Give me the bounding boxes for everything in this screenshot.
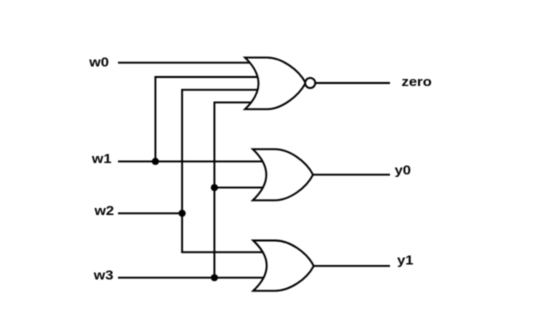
- wire y1 output: [314, 265, 390, 267]
- wire w3 branch to y0 gate: [214, 187, 267, 189]
- or-gate U3 (y1): [253, 241, 314, 291]
- nor-gate U1 bubble: [305, 78, 315, 88]
- node y0 branch junction: [211, 184, 218, 191]
- svg-text:w2: w2: [93, 203, 114, 218]
- svg-text:w1: w1: [91, 151, 112, 166]
- node w1 junction: [152, 158, 159, 165]
- node w2 junction: [179, 210, 186, 217]
- wire y0 output: [313, 174, 390, 176]
- wire w2 input: [118, 212, 182, 214]
- wire w2 branch to NOR and y1 gate: [182, 90, 268, 252]
- wire zero output: [316, 82, 390, 84]
- wire w1 input: [118, 160, 267, 162]
- wire w1 branch to NOR: [155, 77, 258, 161]
- svg-text:y1: y1: [397, 252, 414, 267]
- svg-text:w3: w3: [93, 267, 114, 282]
- svg-text:zero: zero: [402, 74, 432, 89]
- svg-text:y0: y0: [395, 162, 412, 177]
- svg-text:w0: w0: [88, 54, 109, 69]
- wire w3 input: [118, 277, 267, 279]
- nor-gate U1 (zero): [245, 58, 306, 110]
- or-gate U2 (y0): [253, 149, 313, 200]
- wire w0 input: [118, 62, 254, 64]
- node w3 junction: [211, 274, 218, 281]
- wire w3 branch to NOR: [214, 102, 256, 277]
